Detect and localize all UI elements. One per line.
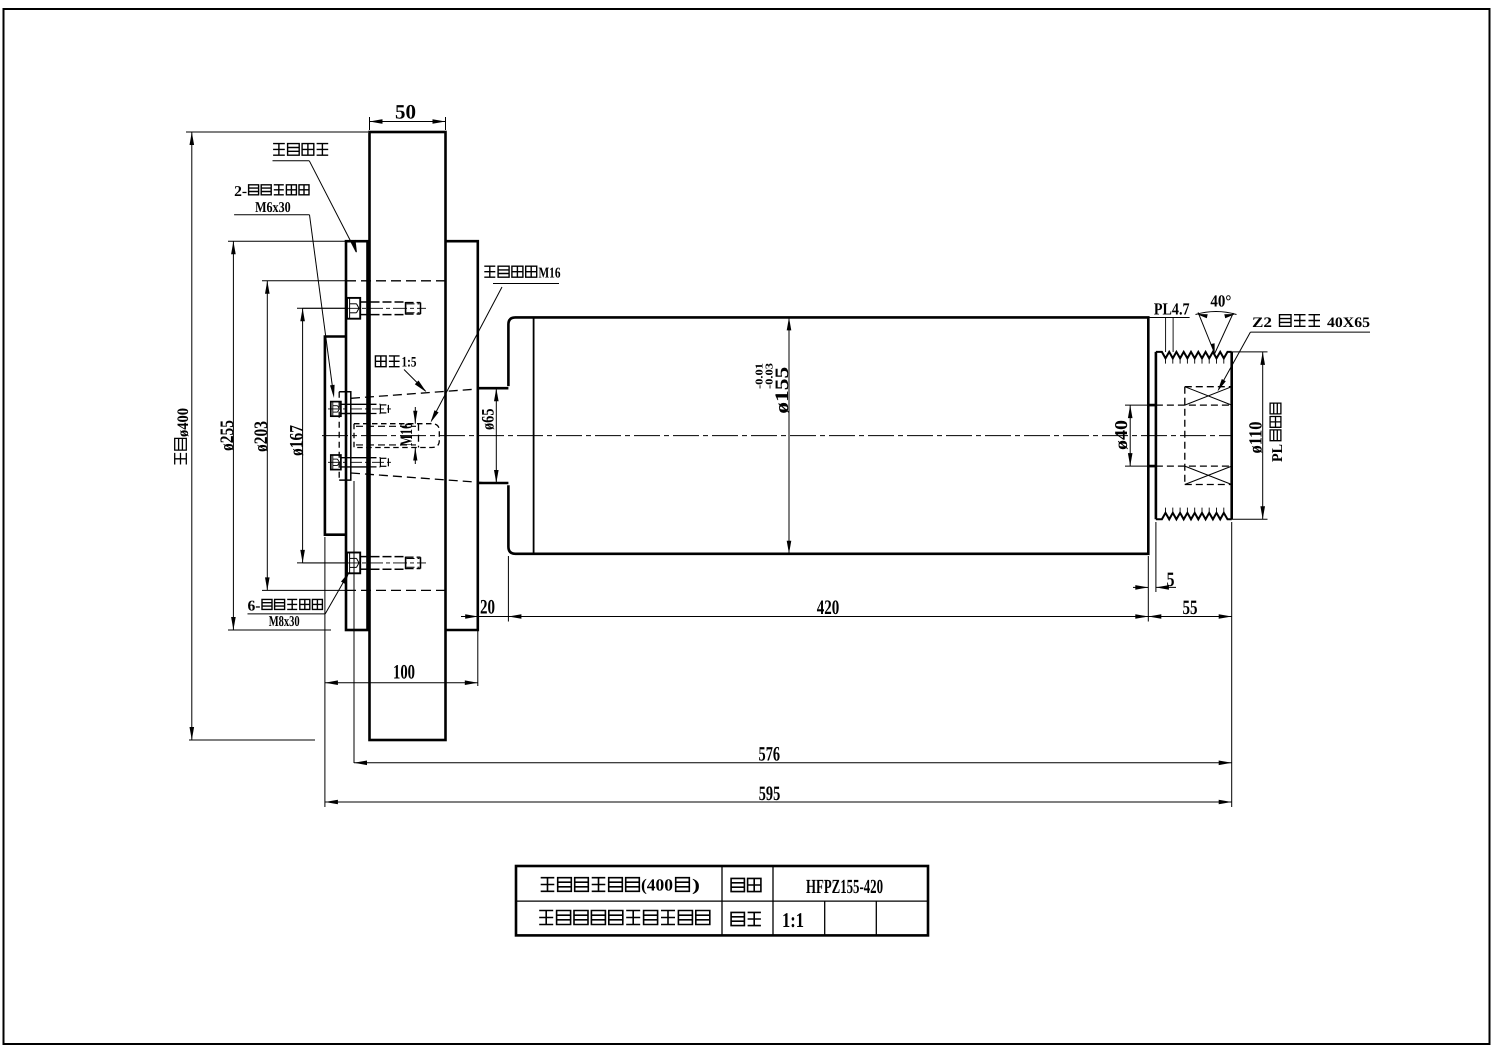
dim Ø400 label — [175, 408, 192, 465]
dim Ø203 label — [251, 421, 272, 452]
socket screw M8 lower — [347, 553, 360, 574]
groove depth ticks top — [1165, 358, 1167, 363]
svg-text:50: 50 — [395, 102, 416, 124]
dim 55 arrows — [1148, 614, 1161, 619]
dim 40deg arrows — [1197, 314, 1208, 318]
shaft Ø65 neck — [478, 388, 509, 483]
dim Ø167 line — [302, 308, 304, 563]
dim Ø65 label — [477, 408, 497, 430]
label PL-type pulley — [1270, 403, 1286, 462]
label 2-M6 underline — [234, 214, 309, 216]
dim Ø40 label — [1111, 420, 1131, 450]
svg-text:M16: M16 — [396, 423, 416, 446]
dim line y616 — [461, 616, 1232, 618]
dim Ø155 arrows — [787, 317, 792, 330]
ext line shaft-left lower — [507, 556, 509, 622]
svg-text:M8x30: M8x30 — [269, 614, 300, 630]
label Z2 leader — [1219, 332, 1251, 389]
sleeve bore hidden lines Ø40 — [1156, 404, 1232, 406]
svg-text:20: 20 — [480, 597, 495, 619]
dim Ø167 arrows — [300, 308, 305, 321]
svg-text:1:1: 1:1 — [782, 908, 804, 932]
dim Ø110 line — [1262, 352, 1264, 519]
svg-text:ø40: ø40 — [1111, 420, 1131, 450]
taper bore hidden line upper — [351, 389, 483, 399]
dim 50 arrows — [370, 119, 383, 124]
dim 420 arrows — [508, 614, 521, 619]
label wheel screw M16 arrow — [431, 410, 439, 423]
label 6-M8 leader — [325, 573, 348, 614]
label wheel clamp plate underline — [273, 160, 310, 162]
dim Ø110 arrows — [1260, 352, 1265, 365]
title row1 model label — [731, 878, 744, 891]
socket screw M8 upper — [347, 298, 360, 319]
title row2 scale label — [731, 912, 744, 925]
taper bore hidden line lower — [351, 473, 483, 483]
svg-text:2-: 2- — [234, 184, 247, 200]
dim Ø155 line — [788, 317, 790, 553]
label 6-M8 underline — [248, 613, 326, 615]
pulley top belt grooves — [1156, 352, 1232, 358]
dim Ø203 arrows — [265, 281, 270, 294]
dim Ø110 ext — [1232, 351, 1268, 353]
dim Ø40 ext — [1125, 404, 1148, 406]
dim 5 arrows — [1135, 585, 1148, 590]
shaft step line — [533, 317, 535, 553]
dim 50 line — [370, 121, 446, 123]
svg-text:100: 100 — [393, 662, 415, 684]
svg-text:): ) — [692, 876, 700, 895]
sleeve outer hidden lines Ø65 — [1185, 386, 1232, 388]
M16 thread hidden lines — [356, 425, 416, 427]
dim 595 arrows — [325, 800, 338, 805]
svg-text:ø203: ø203 — [251, 421, 272, 452]
dim M16 label — [396, 423, 416, 446]
dim Ø40 line — [1129, 405, 1131, 466]
svg-text:ø167: ø167 — [286, 425, 307, 456]
dim Ø40 arrows — [1128, 405, 1133, 418]
dim M16 arrows — [413, 411, 417, 424]
ext line boss-left lower — [324, 537, 326, 807]
svg-text:420: 420 — [817, 597, 840, 619]
dim Ø255 extension top — [228, 240, 346, 242]
shaft end stub hidden edge — [338, 392, 340, 480]
label PL4.7 underline — [1149, 317, 1190, 319]
svg-text:6-: 6- — [248, 599, 261, 615]
dim 100 arrows — [325, 680, 338, 685]
socket screw M6 lower — [331, 455, 341, 470]
svg-text:ø400: ø400 — [175, 408, 192, 437]
title block vertical 2 — [772, 866, 774, 935]
pressure plate boss — [325, 337, 346, 535]
dim Ø167 label — [286, 425, 307, 456]
ext line pulley-right lower — [1231, 522, 1233, 807]
label 6-M8 arrow — [341, 572, 350, 584]
dim Ø110 label — [1247, 422, 1267, 454]
title block vertical 1 — [721, 866, 723, 935]
label wheel screw M16 text — [484, 266, 495, 277]
dim Ø65 line — [495, 388, 497, 483]
pressure plate Ø255 — [346, 241, 368, 630]
label PL4.7 ticks — [1165, 318, 1167, 353]
svg-text:55: 55 — [1183, 597, 1198, 619]
dim Ø167 ext top — [297, 307, 345, 309]
dim 100 line — [325, 682, 478, 684]
dim Ø167 ext bottom — [297, 562, 345, 564]
dim Ø255 label — [217, 420, 238, 451]
title block vertical 4 — [875, 901, 877, 935]
M16 head boundary hidden — [418, 424, 420, 448]
dim Ø400 line — [191, 132, 193, 740]
dim 5 line — [1133, 586, 1148, 588]
sleeve left hidden edge — [1184, 387, 1186, 485]
bolt circle Ø203 lower — [262, 589, 346, 591]
label wheel screw M16 underline — [493, 283, 559, 285]
bolt circle Ø203 upper — [262, 280, 346, 282]
svg-text:HFPZ155-420: HFPZ155-420 — [806, 876, 883, 898]
dim 40deg arc — [1196, 312, 1237, 315]
label Z2 arrow — [1218, 379, 1226, 392]
svg-text:M6x30: M6x30 — [255, 200, 291, 216]
svg-text:Z2: Z2 — [1252, 315, 1272, 331]
label wheel clamp plate text — [273, 144, 285, 156]
dim Ø400 extension top — [186, 131, 368, 133]
dim Ø203 line — [266, 281, 268, 591]
title block mid horizontal — [516, 900, 928, 902]
main centerline — [322, 435, 1232, 437]
svg-text:(400: (400 — [641, 876, 673, 895]
svg-text:ø110: ø110 — [1247, 422, 1267, 454]
shaft Ø40 stub — [1148, 405, 1156, 466]
svg-text:576: 576 — [759, 744, 781, 766]
dim Ø255 line — [232, 241, 234, 630]
ext line shaft-right lower — [1147, 556, 1149, 622]
title row1 name — [541, 878, 555, 892]
sleeve cross lower — [1185, 466, 1232, 484]
dim 576 arrows — [354, 761, 367, 766]
label wheel screw M16 leader — [432, 287, 503, 421]
svg-text:M16: M16 — [539, 265, 561, 281]
svg-text:595: 595 — [759, 783, 781, 805]
label 2-M6 arrow — [330, 385, 335, 398]
dim Ø155 label — [772, 367, 793, 414]
svg-text:5: 5 — [1167, 569, 1175, 591]
svg-text:ø255: ø255 — [217, 420, 238, 451]
dim Ø400 arrows — [190, 132, 195, 145]
dim 40deg lines — [1198, 312, 1215, 353]
label Z2 underline — [1250, 331, 1370, 333]
pulley body PL-type — [1156, 352, 1232, 519]
dim Ø400 extension bottom — [189, 739, 315, 741]
shaft end stub — [339, 392, 351, 480]
svg-text:PL4.7: PL4.7 — [1154, 300, 1190, 319]
wheel flange plate right — [446, 241, 478, 630]
title block outer frame — [516, 866, 928, 935]
main shaft Ø155 body — [508, 317, 1148, 553]
label taper 1:5 text — [375, 356, 386, 367]
svg-text:1:5: 1:5 — [402, 355, 417, 371]
label wheel clamp plate leader — [309, 161, 356, 252]
dim Ø65 arrows — [494, 388, 499, 401]
svg-text:40X65: 40X65 — [1327, 315, 1370, 331]
ext line stub-576 — [353, 481, 355, 763]
label 2-M6 leader — [310, 215, 334, 394]
title row2 name — [539, 911, 553, 925]
pulley bottom belt grooves — [1156, 513, 1232, 519]
svg-text:-0.03: -0.03 — [765, 363, 776, 389]
label taper leader — [404, 370, 426, 392]
ext line plate-right lower — [477, 630, 479, 686]
svg-text:ø65: ø65 — [477, 408, 497, 430]
dim 20 arrow — [465, 614, 478, 619]
label taper arrow — [415, 381, 427, 393]
ext line Ø65-20 — [477, 485, 479, 630]
svg-text:40°: 40° — [1210, 292, 1231, 311]
ext line pulley-left lower — [1155, 522, 1157, 592]
label wheel clamp plate arrow — [351, 240, 357, 253]
groove depth ticks bottom — [1165, 508, 1167, 513]
svg-text:PL: PL — [1270, 444, 1286, 462]
dim Ø255 extension bottom — [228, 629, 331, 631]
title block vertical 3 — [824, 901, 826, 935]
wheel screw M16 hidden outline — [354, 424, 439, 448]
grinding wheel Ø400 column — [370, 132, 446, 740]
dim 50 extension lines — [369, 117, 371, 130]
dim M16 arrow stems — [414, 407, 416, 424]
sleeve cross upper — [1185, 387, 1232, 405]
dim 595 line — [325, 801, 1232, 803]
dim 576 line — [354, 762, 1232, 764]
dim Ø255 arrows — [231, 241, 236, 254]
socket screw M6 upper — [331, 402, 341, 417]
